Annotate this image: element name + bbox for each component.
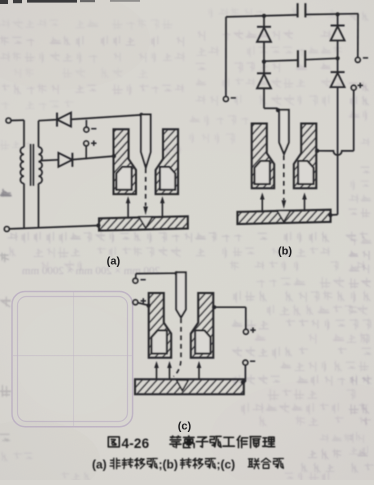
- diode D4 (b left bottom): [257, 72, 271, 74]
- wire D1 to electrode top (a): [71, 115, 141, 120]
- transformer T core: [30, 144, 32, 186]
- terminal plus left (c): [133, 300, 138, 305]
- AC input terminal top-left (a): [6, 118, 11, 123]
- junction node nozzle left edge (c): [147, 304, 151, 308]
- junction node nozzle right edge (c): [212, 305, 216, 309]
- pilot terminal minus (a): [85, 120, 87, 127]
- torch (a) nozzle body left (hatched): [114, 129, 137, 194]
- svg-text:;(b): ;(b): [159, 458, 178, 472]
- plasma gas arrow left (b): [261, 199, 263, 213]
- bleed-through figure frame box: [12, 292, 133, 427]
- torch (b) nozzle body right (hatched): [294, 124, 317, 189]
- arc dashed curved line (c): [174, 319, 182, 377]
- diode D3 (b left top): [257, 26, 271, 28]
- junction node at electrode top (a): [139, 113, 143, 117]
- junction node nozzle right edge (b): [315, 149, 319, 153]
- plasma gas arrow right (a): [161, 202, 163, 216]
- torch (c) cooling cavity left: [152, 331, 167, 354]
- plasma gas arrow mid-left (c): [169, 367, 171, 379]
- torch (b) tungsten electrode rod: [279, 110, 289, 154]
- transformer primary bottom lead: [23, 184, 25, 229]
- wire D3 to mid node: [263, 42, 265, 62]
- diode D2 (to nozzle, cathode bar right): [71, 153, 73, 167]
- workpiece plate (c) (hatched): [135, 379, 244, 394]
- plasma gas arrow left (a): [127, 202, 129, 217]
- bleed-through left margin marks: [0, 189, 11, 196]
- arc dashed line (a): [145, 169, 147, 207]
- arc dashed line (b): [283, 156, 285, 201]
- svg-text:4-26: 4-26: [122, 436, 150, 451]
- junction node workpiece right end (b): [328, 213, 332, 217]
- bleed-through right margin column: [349, 12, 368, 21]
- terminal plus right (c): [244, 329, 249, 334]
- torch (b) cooling cavity left: [255, 161, 270, 184]
- bottom wire to workpiece (a): [9, 226, 98, 229]
- torch (c) cooling cavity right: [195, 331, 210, 354]
- diode D1 (to electrode, cathode bar left): [56, 113, 58, 127]
- torch (b) nozzle body left (hatched): [252, 124, 275, 189]
- output terminal plus (b): [351, 85, 356, 90]
- arc notch in workpiece (c): [177, 380, 189, 390]
- wire mid node to capacitor C2: [264, 60, 298, 61]
- arc arrow head down (a): [143, 207, 148, 216]
- diode D6 (b right bottom): [331, 71, 345, 73]
- wire D4 to electrode (b): [263, 88, 265, 108]
- transformer secondary bottom lead: [38, 184, 40, 228]
- workpiece plate (a) (hatched): [99, 216, 188, 230]
- junction node mid right (b): [336, 56, 340, 60]
- capacitor C1 top (b): [297, 3, 299, 17]
- wire terminal to transformer primary (a): [11, 119, 24, 121]
- output terminal minus right (b): [355, 58, 360, 63]
- svg-text:200 mm × 200 mm × 2000 mm: 200 mm × 200 mm × 2000 mm: [22, 265, 160, 277]
- wire D6 down to workpiece (b): [337, 87, 339, 215]
- torch (b) cooling cavity right: [298, 161, 313, 184]
- plasma gas arrow right (b): [304, 199, 306, 212]
- wire C2 to right chain: [305, 58, 337, 59]
- plasma gas arrow far-left (c): [156, 367, 158, 379]
- top wire right segment (b): [305, 13, 358, 16]
- wire top to diode D5: [337, 14, 339, 25]
- arc arrow head down (b): [282, 200, 287, 209]
- wire top to diode D3: [263, 16, 265, 27]
- AC input terminal bottom-left (a): [4, 227, 9, 232]
- wire down to output minus left (b): [225, 17, 227, 97]
- output terminal minus left (b): [224, 97, 229, 102]
- wire minus terminal to workpiece (c): [244, 365, 246, 382]
- torch (c) nozzle body right (hatched): [191, 293, 214, 358]
- wire plus terminal down to nozzle with hop (b): [353, 90, 355, 151]
- svg-text:(c): (c): [178, 421, 192, 433]
- wire D5 to mid right: [337, 41, 339, 73]
- wire secondary top to diode D1: [38, 121, 40, 147]
- wire plus terminal to nozzle left (c): [138, 303, 148, 306]
- wire secondary tap to diode D2: [41, 159, 59, 162]
- transformer T secondary winding: [39, 147, 43, 184]
- junction node at nozzle left edge (a): [112, 154, 116, 158]
- svg-text:(b): (b): [278, 246, 292, 258]
- junction node workpiece right end (c): [241, 380, 245, 384]
- torch (a) tungsten electrode rod: [141, 115, 151, 168]
- wire nozzle right to plus terminal (c): [214, 306, 246, 308]
- junction node at workpiece left end (a): [96, 223, 100, 227]
- wire mid to diode D4: [263, 62, 265, 74]
- plasma gas arrow right (c): [198, 367, 200, 379]
- svg-text:;(c): ;(c): [217, 458, 236, 472]
- caption line 1: fig 4-26 plasma arc working principle: [108, 437, 119, 447]
- arc notch in workpiece (a): [139, 217, 152, 228]
- wire down to output minus right (b): [357, 14, 359, 58]
- wire electrode to minus terminal (c): [136, 272, 177, 274]
- pilot terminal plus (a): [84, 141, 89, 146]
- arc notch in workpiece (b): [277, 211, 290, 222]
- junction node mid left (b): [262, 60, 266, 64]
- torch (c) nozzle body left (hatched): [149, 293, 172, 358]
- svg-text:(a): (a): [107, 256, 121, 268]
- torch (c) tungsten electrode rod: [176, 272, 186, 317]
- junction node top wire right chain: [336, 12, 340, 16]
- top wire left segment (b): [226, 15, 298, 17]
- svg-text:(a): (a): [92, 458, 107, 472]
- torch (a) nozzle body right (hatched): [156, 129, 179, 194]
- bleed-through text rows: [0, 19, 172, 29]
- capacitor C2 middle (b): [297, 50, 299, 67]
- terminal minus top-left (c): [133, 278, 138, 283]
- torch (a) cooling cavity left: [116, 167, 131, 190]
- scan artifact: cropped dark text at top edge: [0, 0, 140, 4]
- terminal minus right (c): [243, 360, 248, 365]
- junction node electrode top (c): [175, 271, 179, 275]
- junction node electrode top (b): [276, 108, 280, 112]
- workpiece plate (b) (hatched): [237, 210, 330, 224]
- transformer T primary winding (a): [20, 147, 24, 184]
- junction node top wire left chain: [262, 14, 266, 18]
- wire D2 to nozzle (a): [72, 156, 113, 160]
- diode D5 (b right top): [331, 25, 345, 27]
- torch (a) cooling cavity right: [160, 167, 175, 190]
